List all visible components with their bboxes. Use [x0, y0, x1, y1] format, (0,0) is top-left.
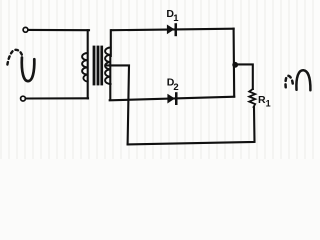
svg-text:2: 2 [173, 82, 178, 93]
svg-text:1: 1 [173, 13, 179, 24]
svg-text:1: 1 [266, 99, 271, 109]
